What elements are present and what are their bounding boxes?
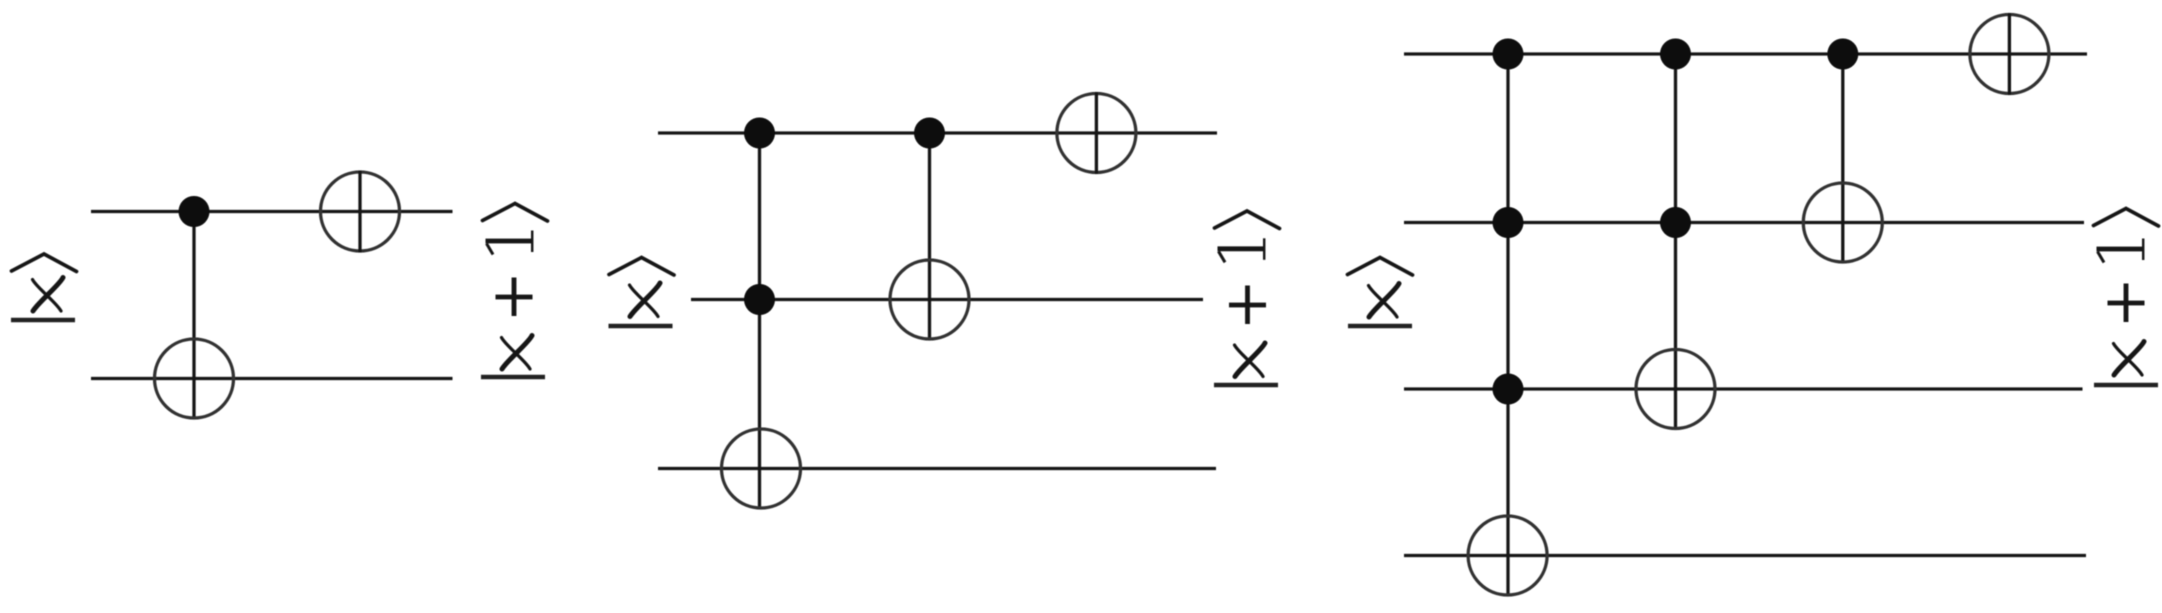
control dot on q0 col 2 (circuit 2)	[914, 118, 945, 149]
control dot on q1 col 1 (circuit 2)	[744, 284, 775, 315]
Toffoli target on q2 (circuit 3)	[1636, 350, 1715, 429]
output ket label |x+1> (circuit 3)	[2094, 209, 2159, 386]
CCC-NOT control vertical wire col 1 (circuit 3)	[1506, 54, 1509, 596]
wire q1 (circuit 1)	[91, 377, 453, 380]
output ket label |x+1> (circuit 2)	[1214, 211, 1280, 385]
Toffoli control vertical wire col 2 (circuit 3)	[1674, 54, 1677, 430]
output ket label |x+1> (circuit 1)	[481, 204, 548, 378]
input ket label |x> (circuit 1)	[11, 254, 77, 320]
control dot on q0 col 1 (circuit 3)	[1493, 39, 1524, 70]
control dot on q0 col 3 (circuit 3)	[1827, 39, 1858, 70]
input ket label |x> (circuit 3)	[1348, 258, 1413, 327]
control dot on q1 col 1 (circuit 3)	[1493, 207, 1524, 238]
CCC-NOT target on q3 (circuit 3)	[1468, 516, 1547, 595]
wire q2 (circuit 3)	[1404, 387, 2083, 390]
CNOT target on q1 (circuit 3)	[1803, 183, 1882, 262]
control dot on q1 col 2 (circuit 3)	[1660, 207, 1691, 238]
input ket label |x> (circuit 2)	[609, 258, 675, 327]
NOT target on q0 (circuit 3)	[1970, 13, 2049, 95]
control dot on q0 col 1 (circuit 2)	[744, 118, 775, 149]
wire q0 (circuit 2)	[658, 131, 1217, 134]
wire q0 (circuit 3)	[1404, 52, 2087, 55]
NOT target on q0 (circuit 2)	[1057, 92, 1136, 174]
Toffoli control vertical wire col 1 (circuit 2)	[758, 133, 761, 509]
CNOT control vertical wire (circuit 1)	[192, 212, 195, 420]
Toffoli target on q2 (circuit 2)	[722, 429, 801, 508]
wire q0 (circuit 1)	[91, 210, 453, 213]
CNOT target on q1 (circuit 1)	[155, 339, 234, 418]
control dot on q0 col 2 (circuit 3)	[1660, 39, 1691, 70]
CNOT control vertical wire col 2 (circuit 2)	[928, 133, 931, 340]
wire q1 (circuit 2)	[691, 298, 1203, 301]
wire q1 (circuit 3)	[1404, 221, 2084, 224]
CNOT control vertical wire col 3 (circuit 3)	[1841, 54, 1844, 264]
NOT target on q0 (circuit 1)	[321, 171, 400, 253]
control dot on q2 col 1 (circuit 3)	[1493, 374, 1524, 405]
wire q2 (circuit 2)	[658, 467, 1216, 470]
CNOT target on q1 (circuit 2)	[890, 260, 969, 339]
wire q3 (circuit 3)	[1404, 554, 2086, 557]
control dot on q0 (circuit 1)	[179, 196, 210, 227]
